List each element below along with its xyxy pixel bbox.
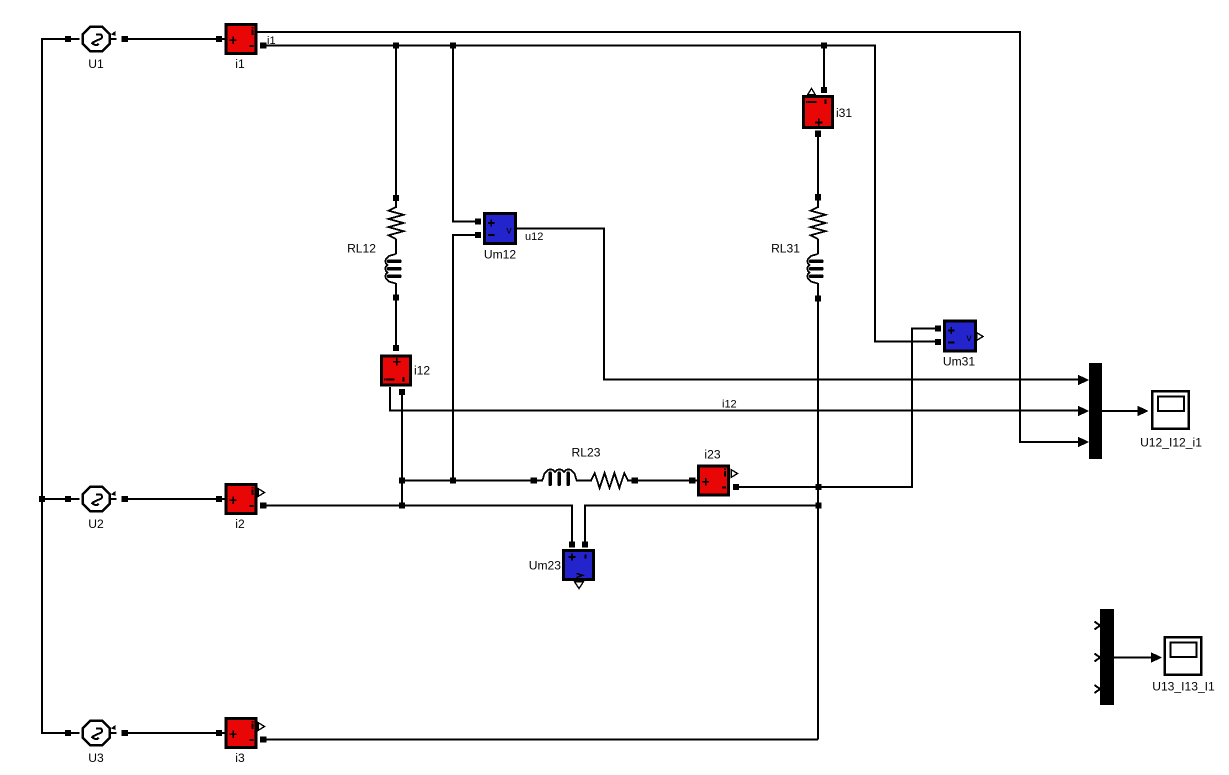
- svg-text:v: v: [966, 332, 972, 344]
- svg-text:i31: i31: [836, 106, 852, 120]
- svg-text:U12_I12_i1: U12_I12_i1: [1140, 436, 1202, 450]
- svg-text:v: v: [506, 225, 512, 237]
- svg-text:Um12: Um12: [484, 248, 517, 262]
- svg-text:RL23: RL23: [572, 446, 601, 460]
- svg-text:i1: i1: [267, 35, 276, 47]
- svg-text:i12: i12: [722, 399, 737, 411]
- svg-text:U3: U3: [88, 751, 104, 765]
- svg-text:Um23: Um23: [529, 559, 562, 573]
- svg-text:U1: U1: [88, 57, 104, 71]
- svg-text:i3: i3: [235, 751, 245, 765]
- svg-text:i23: i23: [704, 448, 720, 462]
- svg-text:RL31: RL31: [771, 242, 800, 256]
- svg-text:u12: u12: [525, 231, 543, 243]
- svg-text:i2: i2: [235, 517, 245, 531]
- svg-text:i12: i12: [414, 364, 430, 378]
- svg-text:RL12: RL12: [347, 242, 376, 256]
- svg-text:Um31: Um31: [943, 355, 976, 369]
- svg-text:U13_I13_I1: U13_I13_I1: [1152, 680, 1215, 694]
- svg-text:i1: i1: [235, 57, 245, 71]
- svg-text:U2: U2: [88, 517, 104, 531]
